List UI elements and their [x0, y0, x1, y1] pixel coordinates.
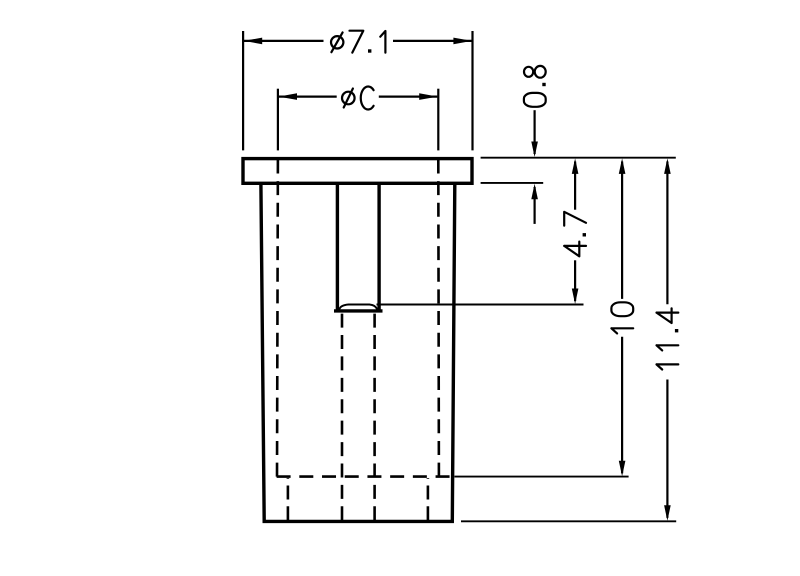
- hidden line: bore øC left wall: [276, 160, 279, 477]
- arrow ø7.1 right: [453, 38, 472, 45]
- center blind hole bottom line: [336, 309, 381, 312]
- arrow 10 down: [619, 461, 626, 477]
- dimension 10 lower line: [621, 337, 623, 474]
- flange (top collar) outline: [243, 159, 472, 184]
- dimension 0.8 upper line: [533, 110, 535, 154]
- text ø7.1: [331, 31, 385, 53]
- hidden line: bottom recess right wall: [427, 478, 430, 520]
- hidden line: center small hole right (below blind hole): [373, 314, 376, 521]
- hidden line: center small hole left (below blind hole): [341, 314, 344, 521]
- center blind hole right wall: [377, 184, 380, 309]
- arrow ø7.1 left: [244, 38, 263, 45]
- arrow 0.8 up: [531, 184, 538, 200]
- text 11.4 (rotated): [657, 308, 679, 369]
- extension line: flange bottom right: [481, 182, 544, 184]
- center blind hole dome arc: [339, 305, 377, 310]
- dimension 11.4 upper line: [666, 162, 668, 305]
- extension line: øC left: [277, 89, 279, 151]
- arrow 4.7 down: [572, 289, 579, 305]
- arrow 10 up: [619, 158, 626, 174]
- hidden line: bore øC right wall: [437, 160, 440, 477]
- arrow 0.8 down: [531, 142, 538, 158]
- extension line: ø7.1 right: [471, 31, 473, 150]
- arrow 11.4 down: [664, 505, 671, 521]
- arrow 4.7 up: [572, 158, 579, 174]
- center blind hole left wall: [336, 184, 339, 309]
- extension line: bore bottom right: [455, 476, 629, 478]
- extension line: ø7.1 left: [242, 31, 244, 150]
- extension line: flange top right (long): [481, 157, 676, 159]
- arrow 11.4 up: [664, 158, 671, 174]
- extension line: øC right: [437, 89, 439, 151]
- dimension 4.7 lower line: [574, 260, 576, 301]
- body outline (tapered cylinder sides and bottom): [261, 184, 455, 522]
- dimension 4.7 upper line: [574, 162, 576, 210]
- text 0.8 (rotated): [524, 66, 546, 107]
- extension line: hole bottom right: [377, 304, 584, 306]
- arrow øC left: [279, 93, 298, 100]
- extension line: part bottom right: [461, 520, 676, 522]
- dimension 11.4 lower line: [666, 380, 668, 518]
- dimension 10 upper line: [621, 162, 623, 299]
- dimension line ø7.1 (left part): [244, 40, 324, 42]
- dimension line øC (left part): [279, 95, 337, 97]
- text 10 (rotated): [611, 302, 633, 333]
- text øC: [342, 87, 374, 110]
- dimension 0.8 lower line: [533, 187, 535, 224]
- text 4.7 (rotated): [564, 212, 586, 256]
- dimension line ø7.1 (right part): [393, 40, 472, 42]
- dimension line øC (right part): [379, 95, 438, 97]
- arrow øC right: [419, 93, 438, 100]
- hidden line: bottom recess left wall: [287, 478, 290, 520]
- hidden line: bore bottom (horizontal): [277, 475, 450, 478]
